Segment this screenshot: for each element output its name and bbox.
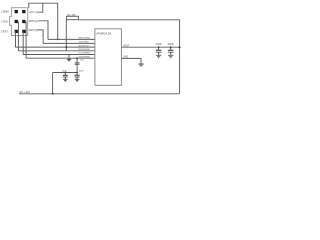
- svg-text:+VCC (2): +VCC (2): [29, 12, 39, 14]
- svg-text:VCC(PWR): VCC(PWR): [79, 53, 90, 55]
- wire MOSI stub down: [38, 21, 48, 40]
- capacitor C5: [158, 47, 160, 55]
- wire bus3 to U1: [16, 46, 95, 48]
- wire bus6 to U1: [26, 57, 95, 59]
- wire GND stub down: [37, 30, 43, 44]
- wire U1 gnd right: [121, 58, 141, 63]
- connector J1 outline: [10, 8, 28, 36]
- svg-text:R1 10K: R1 10K: [68, 14, 77, 17]
- node cap bus left cap: [64, 72, 66, 74]
- node cap bus right end: [76, 72, 78, 74]
- wire cap bus: [53, 72, 78, 74]
- wire bus5 to U1: [23, 54, 95, 56]
- wire U1 out to right rail: [121, 46, 179, 48]
- node VCC joins wire1: [57, 39, 59, 41]
- wire bus1 to U1: [48, 38, 95, 40]
- capacitor C2 below bus: [76, 73, 78, 80]
- svg-text:MISO(PB4): MISO(PB4): [79, 38, 90, 40]
- svg-text:RST(PC6): RST(PC6): [79, 45, 89, 47]
- wire pin drop 4: [25, 22, 27, 59]
- capacitor C6: [170, 47, 172, 55]
- node C6 top: [170, 46, 172, 48]
- node at right rail junction: [179, 46, 181, 48]
- wire R1 left lead down to bus4: [65, 20, 67, 51]
- wire bus4 to U1: [18, 50, 95, 52]
- pin 4 pad: [22, 20, 25, 23]
- ground stub on bus5: [68, 55, 70, 60]
- wire bus2 to U1: [43, 42, 95, 44]
- op-amp U1 (MCU box): [95, 29, 122, 86]
- svg-text:100nF: 100nF: [155, 44, 162, 46]
- svg-text:10uF: 10uF: [79, 70, 85, 72]
- svg-text:GND(PWR): GND(PWR): [79, 56, 91, 58]
- node R1 lead on bus3: [65, 46, 67, 48]
- pin 2 pad: [22, 10, 25, 13]
- svg-text:ATMEGA 8A: ATMEGA 8A: [96, 32, 111, 36]
- ground for U1: [138, 64, 143, 66]
- capacitor C1 below bus: [64, 73, 66, 80]
- pin 6 pad: [22, 30, 25, 33]
- node C5 top: [158, 46, 160, 48]
- wire pin drop 1: [15, 31, 17, 47]
- node wire6 drop: [76, 57, 78, 59]
- ground for C2: [75, 79, 80, 81]
- svg-text:3 SCK: 3 SCK: [1, 21, 8, 24]
- wire pin drop 2: [17, 22, 19, 51]
- ground for C5: [156, 55, 161, 58]
- svg-text:100nF: 100nF: [167, 44, 174, 46]
- svg-text:DC + 12V: DC + 12V: [20, 91, 31, 94]
- wire VCC top link from connector: [29, 3, 58, 39]
- svg-text:10uF: 10uF: [62, 70, 68, 72]
- wire R1 right lead to right rail: [78, 20, 179, 94]
- pin 3 pad: [15, 20, 18, 23]
- svg-text:MOSI (4): MOSI (4): [29, 21, 39, 23]
- svg-text:1 MISO: 1 MISO: [1, 11, 9, 14]
- wire bottom rail: [19, 93, 180, 95]
- svg-text:104: 104: [80, 60, 84, 62]
- ground for C1: [63, 79, 68, 81]
- wire pin drop 3: [22, 31, 24, 54]
- wire bus6 drop to cap bus: [76, 58, 78, 72]
- ground bars on bus5 stub: [67, 59, 71, 61]
- resistor R1: [66, 16, 78, 19]
- pin 1 pad: [15, 10, 18, 13]
- svg-text:MOSI(PB3): MOSI(PB3): [79, 49, 90, 51]
- node rail junction: [52, 93, 54, 95]
- pin 5 pad: [15, 30, 18, 33]
- svg-text:5 RST: 5 RST: [1, 30, 8, 33]
- wire VCC stub up: [38, 3, 43, 12]
- svg-text:GND (6): GND (6): [29, 30, 38, 32]
- ground for C6: [168, 55, 173, 58]
- svg-text:SCK(PB5): SCK(PB5): [79, 42, 89, 44]
- wire rail riser: [52, 73, 54, 94]
- capacitor C4 plates (on wire6 drop): [75, 63, 80, 64]
